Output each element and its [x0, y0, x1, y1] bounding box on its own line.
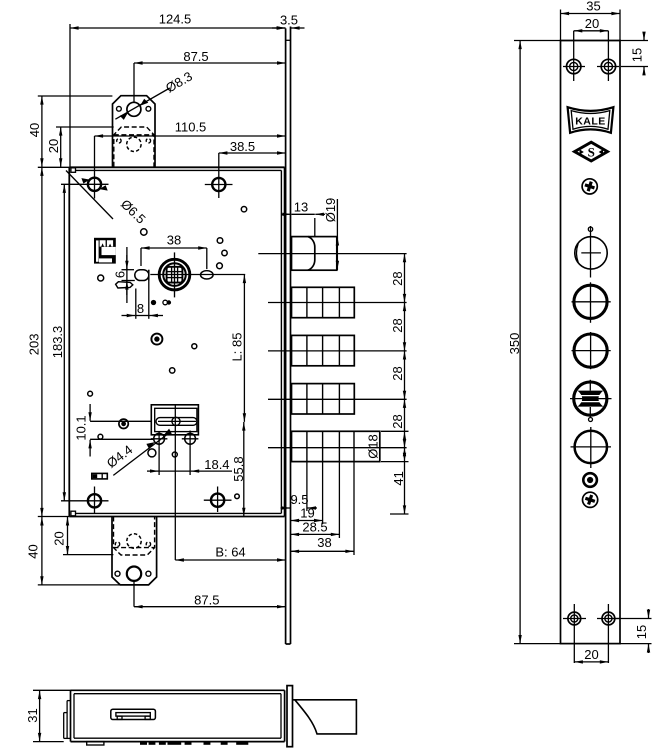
svg-text:6: 6	[113, 271, 128, 278]
svg-text:20: 20	[584, 647, 598, 662]
svg-text:203: 203	[27, 334, 42, 356]
svg-text:28: 28	[390, 414, 405, 428]
svg-text:28: 28	[390, 366, 405, 380]
svg-text:31: 31	[25, 708, 40, 722]
svg-text:15: 15	[630, 48, 645, 62]
svg-text:124.5: 124.5	[159, 12, 192, 27]
svg-text:19: 19	[300, 506, 314, 521]
svg-text:38.5: 38.5	[230, 139, 255, 154]
svg-text:8: 8	[137, 301, 144, 316]
svg-text:110.5: 110.5	[175, 120, 207, 135]
svg-text:KALE: KALE	[575, 116, 606, 128]
svg-text:15: 15	[634, 625, 649, 639]
svg-text:40: 40	[26, 544, 41, 558]
svg-text:28: 28	[390, 271, 405, 285]
svg-text:B: 64: B: 64	[215, 545, 245, 560]
svg-text:55.8: 55.8	[231, 456, 246, 481]
svg-text:20: 20	[585, 16, 599, 31]
svg-text:28.5: 28.5	[302, 520, 327, 535]
svg-text:L: 85: L: 85	[230, 333, 245, 362]
svg-text:9.5: 9.5	[290, 492, 308, 507]
svg-text:183.3: 183.3	[50, 326, 65, 359]
svg-text:38: 38	[167, 233, 181, 248]
svg-text:41: 41	[391, 471, 406, 485]
svg-text:20: 20	[52, 531, 67, 545]
svg-text:3.5: 3.5	[280, 13, 298, 28]
svg-text:13: 13	[294, 199, 308, 214]
svg-text:S: S	[588, 144, 595, 159]
svg-text:Ø18: Ø18	[366, 434, 381, 459]
svg-text:20: 20	[46, 139, 61, 153]
svg-text:87.5: 87.5	[183, 49, 208, 64]
svg-text:87.5: 87.5	[194, 593, 219, 608]
svg-text:40: 40	[27, 123, 42, 137]
svg-text:35: 35	[586, 0, 600, 14]
svg-text:350: 350	[507, 333, 522, 355]
svg-text:28: 28	[390, 318, 405, 332]
svg-text:Ø19: Ø19	[323, 198, 338, 223]
svg-text:18.4: 18.4	[204, 457, 229, 472]
svg-text:10.1: 10.1	[74, 415, 89, 440]
svg-text:38: 38	[317, 535, 331, 550]
